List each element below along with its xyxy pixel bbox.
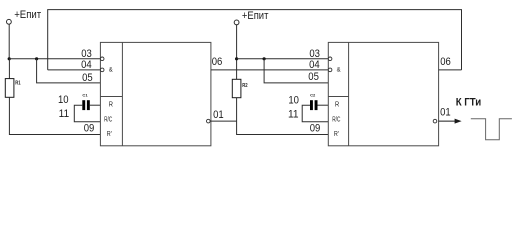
wire DD1 pin 01 to R2 bottom node [211, 120, 237, 122]
wire DD1 pin 06 to DD2 pin 04 [211, 69, 328, 71]
svg-text:10: 10 [288, 94, 299, 106]
DD1 input bubble pin 04 [100, 68, 104, 72]
svg-text:R/C: R/C [332, 115, 340, 124]
svg-text:К ГТи: К ГТи [456, 97, 482, 109]
capacitor C2 [302, 93, 328, 121]
wire from +Епит right terminal down to R2 [236, 25, 238, 79]
svg-text:01: 01 [440, 107, 451, 119]
svg-text:R1: R1 [15, 81, 20, 87]
DD1 output bubble pin 01 [207, 119, 211, 123]
svg-text:04: 04 [309, 59, 320, 71]
svg-text:05: 05 [82, 72, 93, 84]
svg-text:+Епит: +Епит [242, 10, 269, 22]
wire R1 bottom down to pin 09 row [9, 97, 100, 134]
junction on rail for 05 branch [35, 57, 38, 60]
wire DD2 pin 06 to feedback [439, 69, 462, 71]
svg-text:06: 06 [440, 56, 451, 68]
svg-text:+Епит: +Епит [14, 9, 41, 21]
svg-text:R2: R2 [242, 83, 247, 89]
svg-text:11: 11 [59, 108, 70, 120]
junction on right rail [235, 57, 238, 60]
wire into pin 04 of DD1 [48, 69, 101, 71]
DD1 input bubble pin 03 [100, 57, 104, 61]
svg-text:10: 10 [58, 94, 69, 106]
svg-text:04: 04 [81, 59, 92, 71]
wire branch down to pin 05 of DD2 [264, 59, 328, 83]
top feedback wire from DD2 output 06 to DD1 input 04 [48, 10, 462, 70]
svg-text:06: 06 [212, 56, 223, 68]
output waveform symbol (negative pulse) [471, 119, 512, 140]
junction at left rail / R1 top [8, 57, 11, 60]
wire branch down to pin 05 of DD1 [37, 59, 101, 83]
resistor R2 [232, 79, 247, 97]
svg-text:11: 11 [288, 108, 299, 120]
output arrow to К ГТи [439, 119, 462, 124]
svg-text:R/C: R/C [104, 115, 112, 124]
svg-text:09: 09 [84, 123, 95, 135]
DD2 input bubble pin 04 [328, 68, 332, 72]
svg-text:01: 01 [213, 109, 224, 121]
svg-text:05: 05 [308, 71, 319, 83]
resistor R1 [5, 59, 20, 98]
svg-text:C1: C1 [82, 93, 87, 97]
wire from +Епит left terminal down to rail [8, 24, 10, 59]
svg-text:R: R [335, 99, 339, 108]
DD2 input bubble pin 03 [328, 57, 332, 61]
svg-text:R: R [109, 99, 113, 108]
svg-text:R': R' [334, 129, 339, 138]
power terminal +Епит (left) [6, 9, 41, 24]
svg-text:C2: C2 [310, 93, 315, 97]
capacitor C1 [74, 93, 100, 121]
power terminal +Епит (right) [234, 10, 268, 25]
svg-text:09: 09 [310, 123, 321, 135]
wire rail to pin 03 of DD2 [237, 58, 329, 60]
wire R2 bottom down to pin 09 row of DD2 [237, 98, 329, 135]
IC DD1 monostable body [100, 42, 210, 145]
IC DD2 monostable body [328, 42, 438, 145]
junction on right rail for 05 branch [263, 57, 266, 60]
wire rail to pin 03 of DD1 [9, 58, 100, 60]
svg-text:R': R' [107, 129, 112, 138]
DD2 output bubble pin 01 [433, 119, 437, 123]
